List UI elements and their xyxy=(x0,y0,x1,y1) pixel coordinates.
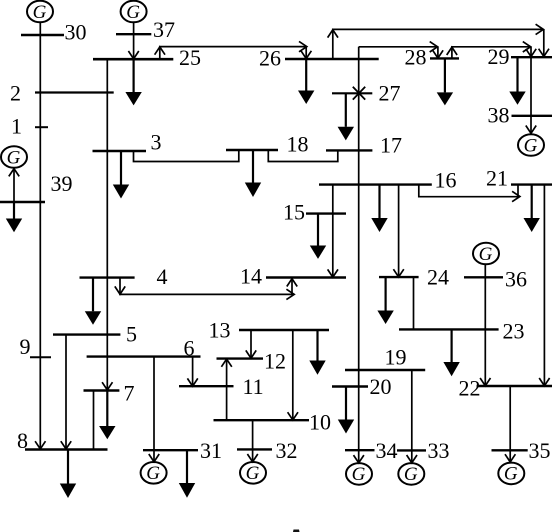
bus 25 bar xyxy=(93,58,173,61)
wire bus 19 to bus 33 generator xyxy=(411,370,413,463)
bus 7 bar xyxy=(84,389,120,391)
load arrow bus 39 xyxy=(13,202,15,219)
svg-text:29: 29 xyxy=(488,44,510,69)
load arrow bus 18 xyxy=(252,150,254,183)
wire bus 13 to bus 10 with arrow xyxy=(292,330,294,420)
line 26-29 upper route with arrows xyxy=(333,29,544,59)
wire bus 39 to G39 with arrow xyxy=(13,169,15,202)
bus 10 bar xyxy=(214,419,310,421)
load arrow bus 3 xyxy=(120,151,122,185)
svg-text:21: 21 xyxy=(486,166,508,191)
generator G32 xyxy=(240,462,266,484)
load arrow bus 7 xyxy=(106,391,108,427)
generator G37 xyxy=(121,1,147,23)
bus 15 bar xyxy=(306,212,346,214)
bus 26 bar xyxy=(285,58,379,60)
bus 39 bar xyxy=(0,201,45,203)
line 18-17 xyxy=(268,150,338,162)
svg-text:16: 16 xyxy=(435,168,457,193)
svg-text:G: G xyxy=(524,135,538,156)
svg-text:G: G xyxy=(479,244,493,265)
bus 27 bar xyxy=(332,92,372,94)
svg-text:33: 33 xyxy=(428,438,450,463)
generator G39 xyxy=(1,146,27,168)
svg-text:7: 7 xyxy=(124,381,135,406)
bus 33 bar xyxy=(397,449,426,451)
load arrow bus 8 xyxy=(67,450,69,484)
svg-text:38: 38 xyxy=(488,103,510,128)
caption fragment at bottom edge xyxy=(293,530,300,532)
wire bus 37 to bus 25 with arrow xyxy=(133,34,135,58)
wire G36 through bus 36 and bus 23 to bus 22 xyxy=(484,264,486,386)
wire bus 6 to bus 11 xyxy=(192,357,194,387)
bus 38 bar xyxy=(512,115,552,117)
wire bus 16 to bus 14 (through bus 15) xyxy=(332,185,334,278)
arrow into bus 7 xyxy=(102,382,112,390)
bus 24 bar xyxy=(379,276,419,278)
load arrow bus 26 xyxy=(305,59,307,91)
load arrow bus 24 xyxy=(385,277,387,310)
svg-text:5: 5 xyxy=(126,322,137,347)
load arrow bus 13 xyxy=(316,330,318,361)
bus 16 bar xyxy=(319,183,432,185)
svg-text:G: G xyxy=(33,2,47,23)
wire bus 5 to bus 8 xyxy=(65,335,67,450)
bus 18 bar xyxy=(226,149,278,151)
bus 23 bar xyxy=(399,328,499,330)
bus 1 tick xyxy=(35,126,48,128)
svg-text:23: 23 xyxy=(503,319,525,344)
bus 28 bar xyxy=(430,57,459,59)
svg-text:G: G xyxy=(404,464,418,485)
wire bus 10 to bus 32 generator xyxy=(252,420,254,462)
line 4-14 with arrows xyxy=(120,278,294,295)
bus 13 bar xyxy=(239,329,329,331)
bus 14 bar xyxy=(266,276,346,278)
wire 26-27-17-16-19-20-34 long vertical xyxy=(358,47,360,450)
load arrow bus 21 xyxy=(531,185,533,218)
line 28-29 with arrows xyxy=(452,47,531,59)
load arrow bus 31 xyxy=(186,450,188,483)
load arrow bus 28 xyxy=(444,58,446,92)
generator G34 xyxy=(346,463,372,485)
svg-text:39: 39 xyxy=(51,171,73,196)
wire G30 to bus 30 xyxy=(39,22,41,35)
svg-text:32: 32 xyxy=(276,438,298,463)
bus 6 bar xyxy=(87,355,201,357)
svg-text:31: 31 xyxy=(200,438,222,463)
bus 5 bar xyxy=(53,333,120,335)
svg-text:24: 24 xyxy=(427,265,449,290)
svg-text:10: 10 xyxy=(309,410,331,435)
bus 11 bar xyxy=(179,385,234,387)
svg-text:26: 26 xyxy=(259,46,281,71)
wire bus 25 to bus 7 (through buses 3,4,5,6) xyxy=(106,59,108,390)
wire bus 16 to bus 24 xyxy=(398,185,400,277)
bus 21 bar xyxy=(511,183,552,185)
wire G37 to bus 37 xyxy=(133,22,135,34)
bus 36 bar xyxy=(464,276,503,278)
svg-text:G: G xyxy=(7,147,21,168)
svg-text:3: 3 xyxy=(151,130,162,155)
svg-text:11: 11 xyxy=(243,374,264,399)
svg-text:9: 9 xyxy=(20,334,31,359)
svg-text:G: G xyxy=(246,463,260,484)
generator G33 xyxy=(398,463,424,485)
line 3-18 xyxy=(134,150,239,162)
svg-text:27: 27 xyxy=(379,81,401,106)
svg-text:35: 35 xyxy=(529,438,551,463)
svg-text:22: 22 xyxy=(459,376,481,401)
bus 32 bar xyxy=(237,448,272,450)
svg-text:G: G xyxy=(352,464,366,485)
svg-text:12: 12 xyxy=(264,349,286,374)
bus 22 bar xyxy=(477,385,552,387)
generator G31 xyxy=(141,462,167,484)
wire bus 13 to bus 12 with arrow xyxy=(250,330,252,358)
load arrow bus 4 xyxy=(92,278,94,312)
wire bus 7 to bus 8 xyxy=(93,391,95,450)
bus 4 bar xyxy=(80,276,135,278)
arrow into generator G34 xyxy=(354,455,364,463)
svg-text:G: G xyxy=(146,463,160,484)
svg-text:28: 28 xyxy=(405,45,427,70)
svg-text:8: 8 xyxy=(17,428,28,453)
arrow into bus 8 xyxy=(35,441,45,449)
wire bus 29 to generator G38 xyxy=(530,57,532,133)
generator G30 xyxy=(27,1,53,23)
bus 2 bar xyxy=(35,91,114,93)
bus 30 bar xyxy=(21,34,64,36)
svg-text:14: 14 xyxy=(240,264,262,289)
line 26-28 with arrows xyxy=(359,46,438,48)
svg-text:G: G xyxy=(504,464,518,485)
wire bus 21 to bus 22 xyxy=(543,185,545,386)
bus 8 bar xyxy=(25,448,108,450)
load arrow bus 27 xyxy=(345,93,347,127)
bus 12 bar xyxy=(217,357,264,359)
bus 31 bar xyxy=(143,449,198,451)
load arrow bus 23 xyxy=(451,329,453,362)
bus 17 bar xyxy=(326,149,372,151)
bus 34 bar xyxy=(345,449,375,451)
bus 37 bar xyxy=(116,33,151,35)
bus 20 bar xyxy=(332,385,368,387)
svg-text:19: 19 xyxy=(385,345,407,370)
wire bus 10 to bus 12 with up arrow (through bus 11) xyxy=(226,359,228,421)
wire bus 24 to bus 23 xyxy=(413,277,415,329)
svg-text:13: 13 xyxy=(209,318,231,343)
bus 35 bar xyxy=(492,449,528,451)
svg-text:36: 36 xyxy=(505,267,527,292)
svg-text:17: 17 xyxy=(380,132,402,157)
load arrow bus 16 xyxy=(378,185,380,218)
svg-text:30: 30 xyxy=(65,20,87,45)
line 16-21 with arrow xyxy=(419,185,520,197)
fault cross at bus 27 xyxy=(353,87,365,100)
load arrow bus 20 xyxy=(345,387,347,420)
svg-text:37: 37 xyxy=(153,17,175,42)
wire bus 30 to bus 8 (through buses 2,1,39,9) xyxy=(39,35,41,450)
svg-text:G: G xyxy=(126,2,140,23)
svg-text:25: 25 xyxy=(179,45,201,70)
bus 29 bar xyxy=(511,56,552,58)
svg-text:15: 15 xyxy=(283,200,305,225)
svg-text:18: 18 xyxy=(287,132,309,157)
svg-text:4: 4 xyxy=(157,264,168,289)
svg-text:34: 34 xyxy=(376,438,398,463)
load arrow bus 15 xyxy=(317,214,319,246)
bus 19 bar xyxy=(345,369,425,371)
svg-text:20: 20 xyxy=(370,374,392,399)
wire bus 22 to generator G35 xyxy=(509,386,511,462)
bus 3 bar xyxy=(93,150,147,152)
generator G36 xyxy=(473,243,499,265)
load arrow bus 25 xyxy=(133,59,135,92)
svg-text:2: 2 xyxy=(10,81,21,106)
wire bus 6 to bus 31 generator xyxy=(153,357,155,462)
svg-text:1: 1 xyxy=(11,114,22,139)
bus 9 tick xyxy=(30,356,51,358)
generator G35 xyxy=(498,463,524,485)
generator G38 xyxy=(518,134,544,156)
line 25-26 with arrows xyxy=(160,47,306,60)
load arrow bus 29 xyxy=(516,57,518,91)
